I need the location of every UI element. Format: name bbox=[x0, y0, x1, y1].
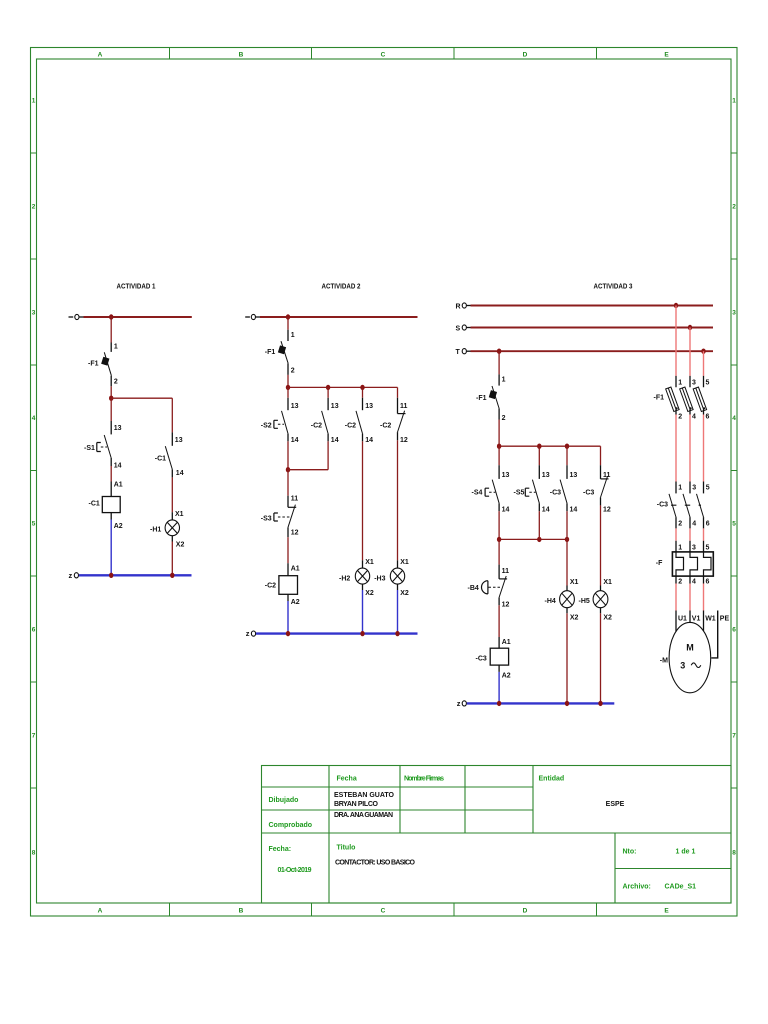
wire lamp H4 to neutral bbox=[566, 613, 568, 703]
svg-text:-C3: -C3 bbox=[476, 656, 487, 663]
svg-text:-H5: -H5 bbox=[579, 598, 590, 605]
title block vertical dividers upper bbox=[329, 766, 533, 834]
svg-text:A: A bbox=[98, 52, 103, 59]
wire phase rail T bbox=[471, 350, 714, 352]
wire fuse to contactor L2 bbox=[689, 415, 691, 482]
svg-text:Comprobado: Comprobado bbox=[269, 822, 313, 829]
wire phase rail S bbox=[471, 327, 714, 329]
title block bottom section dividers bbox=[329, 833, 731, 903]
svg-text:Entidad: Entidad bbox=[539, 776, 565, 783]
svg-text:12: 12 bbox=[400, 437, 408, 444]
wire F1 to branch row bbox=[498, 420, 500, 447]
svg-text:V1: V1 bbox=[692, 615, 701, 622]
svg-text:1: 1 bbox=[678, 380, 682, 387]
drawing frame outer border bbox=[31, 48, 738, 917]
svg-text:8: 8 bbox=[732, 850, 736, 857]
svg-text:U1: U1 bbox=[678, 615, 687, 622]
svg-text:2: 2 bbox=[32, 204, 36, 211]
wire lamp H5 to neutral bbox=[600, 613, 602, 703]
pushbutton B4 blade bbox=[499, 576, 506, 597]
terminal stub bbox=[79, 316, 83, 318]
pushbutton S5 top terminal bbox=[538, 465, 540, 479]
wire C3 NC to lamp H5 bbox=[600, 505, 602, 585]
fuse F1 body pole 3 bbox=[693, 387, 706, 411]
lamp H3 top terminal bbox=[397, 560, 399, 568]
contactor C3 pole 1 bottom terminal bbox=[675, 517, 677, 528]
svg-text:E: E bbox=[664, 908, 669, 915]
terminal circle S bbox=[462, 325, 466, 330]
pushbutton B4 bottom terminal bbox=[498, 597, 500, 605]
node rail tap bbox=[286, 314, 290, 319]
wire top supply rail A2 bbox=[260, 316, 418, 318]
svg-text:CONTACTOR: USO BASICO: CONTACTOR: USO BASICO bbox=[335, 860, 416, 867]
svg-text:3: 3 bbox=[680, 661, 685, 671]
svg-text:X1: X1 bbox=[400, 559, 409, 566]
wire S2 to hold node bbox=[287, 441, 289, 469]
contactor C3 pole 2 bottom terminal bbox=[689, 517, 691, 528]
breaker F1 body square bbox=[278, 345, 286, 354]
node phase T tap bbox=[701, 349, 705, 354]
terminal circle z bbox=[462, 701, 466, 706]
contactor C3 pole 3 blade bbox=[697, 494, 704, 517]
breaker F1 blade bbox=[104, 352, 111, 375]
terminal stub R bbox=[467, 305, 471, 307]
terminal stub T bbox=[467, 350, 471, 352]
svg-text:01-Oct-2019: 01-Oct-2019 bbox=[278, 867, 312, 874]
svg-text:13: 13 bbox=[114, 425, 122, 432]
pushbutton S5 actuator bbox=[525, 488, 529, 496]
svg-text:13: 13 bbox=[570, 472, 578, 479]
svg-text:11: 11 bbox=[400, 403, 408, 410]
svg-text:-F1: -F1 bbox=[265, 349, 276, 356]
motor terminal stub U1 bbox=[675, 611, 677, 632]
svg-text:13: 13 bbox=[542, 472, 550, 479]
contact C2 NO bottom terminal bbox=[362, 434, 364, 442]
node hold b1 bbox=[497, 537, 501, 542]
svg-text:1: 1 bbox=[678, 544, 682, 551]
svg-text:z: z bbox=[69, 571, 73, 580]
pushbutton B4 seat bbox=[499, 578, 507, 580]
wire top supply rail A1 bbox=[84, 316, 192, 318]
lamp H4 top terminal bbox=[566, 586, 568, 591]
node holding circuit bbox=[286, 467, 290, 472]
wire B4 to coil bbox=[498, 605, 500, 637]
wire node to S2 bbox=[287, 387, 289, 397]
svg-text:13: 13 bbox=[291, 403, 299, 410]
pushbutton S3 seat bbox=[288, 506, 296, 508]
column tick marks top band bbox=[170, 48, 597, 60]
pushbutton S2 blade bbox=[282, 411, 289, 434]
svg-text:1: 1 bbox=[732, 98, 736, 105]
node phase R tap bbox=[674, 303, 678, 308]
wire node to B4 bbox=[498, 539, 500, 564]
svg-text:3: 3 bbox=[692, 380, 696, 387]
svg-text:X1: X1 bbox=[175, 511, 184, 518]
lamp H4 body bbox=[560, 591, 575, 608]
wire lamp H3 to neutral bbox=[397, 590, 399, 634]
wire S1 to coil bbox=[110, 466, 112, 482]
pushbutton S4 link bbox=[489, 491, 495, 493]
contactor C3 pole 3 top terminal bbox=[703, 482, 705, 494]
wire node to S1 bbox=[110, 398, 112, 421]
node lamp H5 on neutral bbox=[598, 701, 602, 706]
svg-text:-C2: -C2 bbox=[311, 423, 322, 430]
svg-text:W1: W1 bbox=[705, 615, 716, 622]
svg-text:2: 2 bbox=[678, 579, 682, 586]
svg-text:-B4: -B4 bbox=[468, 585, 479, 592]
motor terminal stub W1 bbox=[703, 611, 705, 632]
terminal circle T bbox=[462, 349, 466, 354]
lamp H2 top terminal bbox=[362, 560, 364, 568]
svg-text:z: z bbox=[457, 699, 461, 708]
motor ac tilde bbox=[691, 663, 701, 668]
svg-text:-F1: -F1 bbox=[88, 361, 99, 368]
contact C2 NO blade bbox=[356, 411, 363, 434]
breaker F1 blade bbox=[281, 341, 288, 363]
row tick marks right band bbox=[731, 153, 737, 788]
lamp H5 top terminal bbox=[600, 586, 602, 591]
svg-text:1 de 1: 1 de 1 bbox=[676, 849, 696, 856]
breaker F1 top terminal bbox=[287, 330, 289, 341]
lamp H3 bottom terminal bbox=[397, 584, 399, 590]
svg-text:-H4: -H4 bbox=[545, 598, 556, 605]
node lamp H3 on neutral bbox=[395, 631, 399, 636]
contact C2 NC bottom terminal bbox=[397, 432, 399, 440]
svg-text:-M: -M bbox=[660, 658, 668, 665]
svg-text:13: 13 bbox=[502, 472, 510, 479]
wire holding cross bbox=[288, 469, 328, 471]
column letters bottom bbox=[98, 908, 670, 915]
node hold b2 bbox=[537, 537, 541, 542]
pushbutton S3 actuator bbox=[274, 513, 278, 521]
lamp H1 top terminal bbox=[171, 512, 173, 520]
svg-text:X1: X1 bbox=[603, 579, 612, 586]
pushbutton S4 bottom terminal bbox=[498, 503, 500, 511]
breaker F1 bottom terminal bbox=[287, 363, 289, 375]
wire S3 to coil bbox=[287, 537, 289, 563]
pushbutton S2 top terminal bbox=[287, 398, 289, 410]
svg-text:E: E bbox=[664, 52, 669, 59]
wire coil to neutral rail bbox=[110, 520, 112, 576]
wire node to C2 lamp contact bbox=[362, 387, 364, 397]
wire phase L1 to fuse bbox=[675, 306, 677, 376]
svg-text:1: 1 bbox=[114, 344, 118, 351]
svg-text:6: 6 bbox=[706, 579, 710, 586]
svg-text:ACTIVIDAD 2: ACTIVIDAD 2 bbox=[322, 284, 361, 291]
wire cross branch bbox=[111, 397, 172, 399]
row numbers left bbox=[32, 98, 36, 857]
wire row corner to C2 NC bbox=[397, 387, 399, 397]
breaker F1 body square bbox=[489, 390, 497, 399]
svg-text:A2: A2 bbox=[291, 599, 300, 606]
title block horizontal lines upper bbox=[262, 787, 732, 833]
svg-text:BRYAN PILCO: BRYAN PILCO bbox=[334, 801, 379, 808]
svg-text:2: 2 bbox=[114, 379, 118, 386]
svg-text:1: 1 bbox=[32, 98, 36, 105]
terminal lead dash bbox=[245, 316, 250, 318]
pushbutton B4 top terminal bbox=[498, 565, 500, 579]
svg-text:DRA. ANA GUAMAN: DRA. ANA GUAMAN bbox=[334, 812, 393, 819]
svg-text:B: B bbox=[239, 52, 244, 59]
svg-text:CADe_S1: CADe_S1 bbox=[665, 884, 697, 891]
svg-text:Fecha: Fecha bbox=[337, 776, 357, 783]
svg-text:14: 14 bbox=[176, 470, 184, 477]
svg-text:7: 7 bbox=[732, 733, 736, 740]
contact C2 aux top terminal bbox=[327, 398, 329, 410]
coil C1 bottom terminal bbox=[110, 513, 112, 520]
pushbutton S2 link bbox=[278, 423, 284, 425]
svg-text:14: 14 bbox=[114, 463, 122, 470]
wire contactor to overload L2 bbox=[689, 528, 691, 540]
contact C3 NC blade bbox=[601, 476, 608, 497]
fuse F1 body pole 1 bbox=[666, 387, 679, 411]
pushbutton S4 actuator bbox=[485, 488, 489, 496]
svg-text:ACTIVIDAD 1: ACTIVIDAD 1 bbox=[117, 284, 156, 291]
node junction rail/branch bbox=[109, 314, 113, 319]
svg-text:2: 2 bbox=[678, 414, 682, 421]
node coil on neutral bbox=[109, 573, 113, 578]
wire S5 to holding row bbox=[538, 511, 540, 539]
svg-text:-C3: -C3 bbox=[657, 502, 668, 509]
svg-text:6: 6 bbox=[32, 627, 36, 634]
wire contact to lamp bbox=[171, 477, 173, 512]
column letters top bbox=[98, 52, 670, 59]
fuse switch F1 top terminals bbox=[676, 376, 704, 387]
svg-text:ACTIVIDAD 3: ACTIVIDAD 3 bbox=[594, 284, 633, 291]
fuse switch F1 bottom terminals bbox=[676, 410, 704, 415]
wire C2 aux to holding bbox=[327, 441, 329, 469]
svg-text:T: T bbox=[456, 349, 461, 356]
svg-text:3: 3 bbox=[732, 310, 736, 317]
svg-text:C: C bbox=[381, 908, 386, 915]
node b1 bbox=[497, 444, 501, 449]
svg-text:-H3: -H3 bbox=[374, 575, 385, 582]
wire C3 aux to holding row bbox=[566, 511, 568, 539]
motor M body bbox=[669, 622, 711, 692]
svg-text:X2: X2 bbox=[603, 615, 612, 622]
coil C3 bottom terminal bbox=[498, 665, 500, 672]
svg-text:Nombre Firmas: Nombre Firmas bbox=[404, 776, 444, 783]
svg-text:-F1: -F1 bbox=[654, 395, 665, 402]
contactor C3 pole 3 bottom terminal bbox=[703, 517, 705, 528]
terminal lead dash L1 bbox=[69, 316, 74, 318]
svg-text:Dibujado: Dibujado bbox=[269, 797, 299, 804]
svg-text:X2: X2 bbox=[176, 542, 185, 549]
wire neutral rail A3 bbox=[467, 702, 615, 704]
contact C2 aux blade bbox=[322, 411, 329, 434]
svg-text:5: 5 bbox=[732, 521, 736, 528]
pushbutton S3 bottom terminal bbox=[287, 527, 289, 537]
pushbutton S4 blade bbox=[492, 480, 499, 504]
svg-text:4: 4 bbox=[32, 415, 36, 422]
wire PE conductor bbox=[711, 611, 717, 658]
contact C3 aux bottom terminal bbox=[566, 503, 568, 511]
svg-text:X2: X2 bbox=[570, 615, 579, 622]
terminal circle L1 bbox=[75, 314, 79, 319]
pushbutton S5 link bbox=[529, 491, 535, 493]
pushbutton B4 mushroom head bbox=[482, 581, 488, 594]
terminal circle z bbox=[251, 631, 255, 636]
svg-text:5: 5 bbox=[706, 544, 710, 551]
svg-text:D: D bbox=[523, 52, 528, 59]
wire contactor to overload L1 bbox=[675, 528, 677, 540]
svg-text:-S3: -S3 bbox=[261, 515, 272, 522]
coil C1 body bbox=[102, 497, 120, 513]
lamp H3 body bbox=[390, 568, 404, 584]
pushbutton S5 blade bbox=[532, 480, 539, 504]
node b3 bbox=[565, 444, 569, 449]
svg-text:X2: X2 bbox=[365, 590, 374, 597]
node coil on neutral bbox=[497, 701, 501, 706]
wire rail to F1 bbox=[287, 317, 289, 330]
svg-text:A2: A2 bbox=[114, 523, 123, 530]
svg-text:5: 5 bbox=[706, 485, 710, 492]
svg-text:-C1: -C1 bbox=[89, 501, 100, 508]
node b1 bbox=[286, 385, 290, 390]
overload F heater 1 bbox=[676, 552, 684, 576]
drawing frame inner border bbox=[37, 59, 732, 903]
breaker F1 top terminal bbox=[110, 343, 112, 352]
terminal circle R bbox=[462, 303, 466, 308]
overload F top terminals bbox=[676, 541, 704, 552]
breaker F1 bottom terminal bbox=[498, 408, 500, 419]
contact C2 aux bottom terminal bbox=[327, 434, 329, 442]
wire rail to F1 bbox=[110, 317, 112, 343]
svg-text:X2: X2 bbox=[400, 590, 409, 597]
wire holding to lamp H4 bbox=[566, 539, 568, 585]
svg-text:-C1: -C1 bbox=[155, 456, 166, 463]
svg-text:2: 2 bbox=[678, 521, 682, 528]
coil C3 top terminal bbox=[498, 637, 500, 648]
contact C3 aux top terminal bbox=[566, 465, 568, 479]
svg-text:2: 2 bbox=[291, 368, 295, 375]
svg-text:A1: A1 bbox=[502, 639, 511, 646]
node phase S tap bbox=[688, 325, 692, 330]
lamp H4 bottom terminal bbox=[566, 608, 568, 614]
coil C2 bottom terminal bbox=[287, 594, 289, 601]
overload F bottom terminals bbox=[676, 576, 704, 583]
svg-text:11: 11 bbox=[502, 568, 510, 575]
contactor C3 pole 2 blade bbox=[683, 494, 690, 517]
row tick marks left band bbox=[31, 153, 37, 788]
node control tap on T bbox=[497, 349, 501, 354]
wire node to S3 bbox=[287, 470, 289, 496]
wire contact to lamp H3 bbox=[397, 440, 399, 560]
wire fuse to contactor L1 bbox=[675, 415, 677, 482]
contactor C3 pole 1 top terminal bbox=[675, 482, 677, 494]
svg-text:4: 4 bbox=[732, 415, 736, 422]
svg-text:-S1: -S1 bbox=[84, 445, 95, 452]
node b2 bbox=[326, 385, 330, 390]
svg-text:z: z bbox=[246, 629, 250, 638]
svg-text:14: 14 bbox=[291, 437, 299, 444]
pushbutton S1 top terminal bbox=[110, 421, 112, 434]
wire node to S5 bbox=[538, 446, 540, 465]
contact C2 NC seat bbox=[398, 413, 406, 415]
lamp H2 body bbox=[355, 568, 369, 584]
node lamp H2 on neutral bbox=[360, 631, 364, 636]
svg-text:14: 14 bbox=[542, 507, 550, 514]
node hold b3 bbox=[565, 537, 569, 542]
terminal stub S bbox=[467, 327, 471, 329]
svg-text:-F: -F bbox=[656, 560, 663, 567]
coil C2 top terminal bbox=[287, 563, 289, 576]
svg-text:R: R bbox=[456, 304, 461, 311]
overload F heater 3 bbox=[704, 552, 712, 576]
lamp H1 bottom terminal bbox=[171, 536, 173, 542]
svg-text:2: 2 bbox=[732, 204, 736, 211]
wire neutral rail A1 bbox=[79, 574, 192, 576]
coil C1 top terminal bbox=[110, 482, 112, 497]
motor terminal stub V1 bbox=[689, 611, 691, 623]
svg-text:12: 12 bbox=[291, 530, 299, 537]
contactor C3 pole 1 blade bbox=[669, 494, 676, 517]
svg-text:A1: A1 bbox=[291, 566, 300, 573]
fuse F1 body pole 2 bbox=[680, 387, 693, 411]
pushbutton S1 blade bbox=[104, 435, 111, 458]
svg-text:11: 11 bbox=[291, 496, 299, 503]
svg-text:A: A bbox=[98, 908, 103, 915]
svg-text:Nto:: Nto: bbox=[623, 849, 637, 856]
svg-text:-C3: -C3 bbox=[583, 490, 594, 497]
svg-text:-H1: -H1 bbox=[150, 527, 161, 534]
svg-text:6: 6 bbox=[732, 627, 736, 634]
svg-text:A2: A2 bbox=[502, 672, 511, 679]
fuse F1 pivot dots bbox=[676, 407, 706, 409]
wire holding row bbox=[499, 538, 567, 540]
lamp H1 body bbox=[165, 520, 179, 536]
contact C3 NC top terminal bbox=[600, 465, 602, 479]
svg-text:5: 5 bbox=[706, 380, 710, 387]
svg-text:12: 12 bbox=[603, 507, 611, 514]
contactor C3 pole 2 top terminal bbox=[689, 482, 691, 494]
svg-text:7: 7 bbox=[32, 733, 36, 740]
svg-text:S: S bbox=[456, 326, 461, 333]
wire overload to motor V bbox=[689, 584, 691, 611]
svg-text:-C3: -C3 bbox=[550, 490, 561, 497]
svg-text:ESTEBAN GUATO: ESTEBAN GUATO bbox=[334, 792, 395, 799]
wire F1 to node row bbox=[287, 375, 289, 388]
pushbutton S2 actuator bbox=[274, 420, 278, 428]
svg-text:PE: PE bbox=[720, 615, 730, 622]
svg-text:13: 13 bbox=[365, 403, 373, 410]
coil C2 body bbox=[279, 576, 298, 595]
svg-text:-S2: -S2 bbox=[261, 423, 272, 430]
contact C1 blade bbox=[165, 446, 172, 469]
contact C3 NC seat bbox=[601, 478, 609, 480]
terminal circle bbox=[251, 314, 255, 319]
wire coil to neutral bbox=[287, 601, 289, 634]
svg-text:14: 14 bbox=[331, 437, 339, 444]
pushbutton S5 bottom terminal bbox=[538, 503, 540, 511]
contact C2 NO top terminal bbox=[362, 398, 364, 410]
svg-text:Titulo: Titulo bbox=[337, 845, 356, 852]
wire S4 to holding row bbox=[498, 511, 500, 539]
node lamp on neutral bbox=[170, 573, 174, 578]
svg-text:-H2: -H2 bbox=[339, 575, 350, 582]
title block outline bbox=[262, 766, 732, 904]
contact C2 NC blade bbox=[398, 411, 405, 432]
wire row corner to C3 NC bbox=[600, 446, 602, 465]
node coil on neutral bbox=[286, 631, 290, 636]
pushbutton S1 bottom terminal bbox=[110, 458, 112, 466]
svg-text:2: 2 bbox=[502, 415, 506, 422]
wire neutral rail A2 bbox=[256, 632, 418, 634]
svg-text:ESPE: ESPE bbox=[606, 801, 625, 808]
wire node to C2 aux bbox=[327, 387, 329, 397]
breaker F1 bottom terminal bbox=[110, 376, 112, 387]
svg-text:X1: X1 bbox=[570, 579, 579, 586]
